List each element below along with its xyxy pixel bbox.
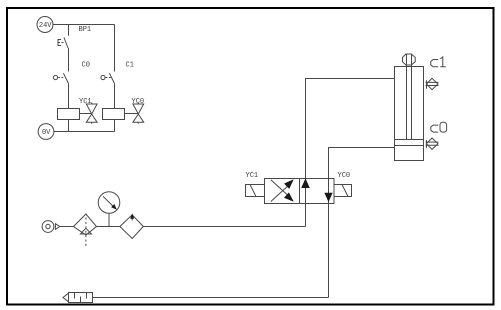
relay coil YC0 xyxy=(103,109,139,120)
cylinder piston rod xyxy=(406,54,412,140)
svg-text:YC1: YC1 xyxy=(79,98,92,106)
valve right position arrows xyxy=(302,180,332,201)
pipe regulator to valve supply xyxy=(143,226,305,228)
filter xyxy=(74,214,97,246)
pressure gauge xyxy=(98,192,120,227)
pipe exhaust to muffler xyxy=(93,297,329,299)
cylinder rod end cap xyxy=(403,54,416,65)
svg-text:C0: C0 xyxy=(82,62,90,70)
wire C0 to coil YC1 xyxy=(68,84,70,109)
pipe supply riser through valve to cylinder top port xyxy=(306,79,395,227)
wire coil YC0 to 0V rail xyxy=(114,120,116,132)
exhaust muffler xyxy=(63,293,93,303)
wire BP1 to C0 xyxy=(68,48,70,72)
svg-text:YC1: YC1 xyxy=(246,172,259,180)
svg-text:YC0: YC0 xyxy=(132,98,145,106)
svg-text:BP1: BP1 xyxy=(79,26,92,34)
sensor c0 xyxy=(426,122,447,149)
power supply 24V xyxy=(37,17,53,33)
contact C1 xyxy=(101,62,134,84)
wire C1 to coil YC0 xyxy=(114,84,116,109)
directional valve body xyxy=(265,179,335,204)
pressure regulator xyxy=(120,215,143,239)
relay coil YC1 xyxy=(58,109,92,120)
svg-text:C1: C1 xyxy=(126,62,134,70)
valve indicator YC1 xyxy=(79,98,97,124)
sensor c1 xyxy=(426,57,446,90)
pipe cylinder bottom port through valve to exhaust xyxy=(329,148,395,298)
solenoid pilot YC0 (right) xyxy=(334,172,352,197)
cylinder body xyxy=(395,67,424,161)
push button BP1 xyxy=(58,26,91,48)
pipe source to filter xyxy=(60,226,74,228)
wire top rail xyxy=(53,24,115,26)
wire right branch from rail xyxy=(114,25,116,72)
valve left position crossed arrows xyxy=(271,180,293,202)
power supply 0V xyxy=(38,124,54,140)
valve indicator YC0 xyxy=(132,98,145,124)
wire coil YC1 to 0V rail xyxy=(68,120,70,132)
contact C0 xyxy=(53,62,90,84)
pipe filter to regulator xyxy=(97,226,120,228)
wire drop to BP1 xyxy=(68,25,70,36)
wire 0V rail xyxy=(54,131,115,133)
solenoid pilot YC1 (left) xyxy=(246,172,265,197)
svg-text:0V: 0V xyxy=(42,129,51,137)
svg-text:24V: 24V xyxy=(39,22,52,30)
svg-text:YC0: YC0 xyxy=(338,172,351,180)
air source xyxy=(42,221,60,233)
